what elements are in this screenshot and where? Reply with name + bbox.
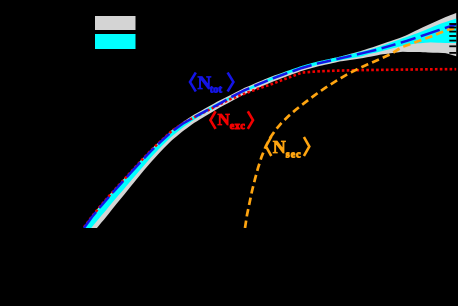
legend gray swatch <box>95 16 136 30</box>
cyan uncertainty band <box>84 18 458 238</box>
label N_sec (orange) <box>266 137 309 161</box>
blue dashed curve N_tot <box>84 24 458 228</box>
svg-text:N: N <box>273 137 286 157</box>
orange dashed curve <box>245 28 458 228</box>
gray uncertainty band <box>84 12 458 245</box>
red dotted curve <box>84 69 458 227</box>
svg-text:N: N <box>218 110 231 129</box>
svg-text:tot: tot <box>210 84 223 95</box>
label N_exc (red) <box>210 110 253 132</box>
svg-text:sec: sec <box>286 150 302 161</box>
svg-text:exc: exc <box>230 121 246 132</box>
label N_tot (blue) <box>190 73 233 96</box>
right axis tick marks <box>449 23 456 54</box>
legend cyan swatch <box>95 34 136 49</box>
